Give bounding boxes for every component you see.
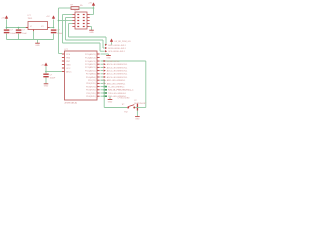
- svg-text:PB7: PB7: [66, 61, 71, 63]
- svg-text:10k: 10k: [80, 5, 83, 7]
- svg-text:LW_BR_PWM_GN: LW_BR_PWM_GN: [115, 41, 132, 43]
- net flag ADC4-LEV-SENSOR-1: [101, 63, 129, 66]
- wire regulator output: [50, 27, 54, 29]
- svg-text:GND: GND: [108, 101, 113, 103]
- svg-text:GND: GND: [66, 64, 71, 66]
- net flag ADC1-LEV-SENSOR-1: [101, 73, 129, 76]
- supply symbol +5V (avcc): [41, 63, 47, 66]
- svg-text:AVCC: AVCC: [66, 70, 72, 73]
- svg-text:GND: GND: [135, 119, 140, 121]
- wire regulator gnd pin down: [33, 31, 35, 39]
- capacitor C2 100uF: [16, 28, 28, 40]
- svg-text:100nF: 100nF: [50, 77, 56, 79]
- net flag AIN1-LED-GREEN-1: [101, 79, 127, 82]
- svg-text:T1-LED-GREEN-1: T1-LED-GREEN-1: [108, 86, 125, 88]
- svg-text:PC2(ADC2): PC2(ADC2): [85, 63, 96, 66]
- svg-text:MISO-LEVEL-SW-1: MISO-LEVEL-SW-1: [108, 45, 127, 47]
- node reset header junction: [58, 20, 60, 22]
- node junction C1: [6, 27, 8, 29]
- wire avcc vertical: [45, 66, 47, 71]
- net flag MOSI: [105, 47, 127, 50]
- svg-text:10uF: 10uF: [22, 33, 27, 35]
- wire reset pullup right: [79, 7, 94, 9]
- supply symbol +5V (header): [88, 2, 95, 6]
- svg-text:VI: VI: [30, 26, 32, 28]
- wire gnd flag stub: [101, 53, 109, 55]
- svg-text:C?: C?: [50, 74, 53, 76]
- svg-text:PD4(XCK): PD4(XCK): [86, 83, 96, 85]
- net flag RXD_BL-PWM-GN-RXD-L-1: [101, 89, 135, 92]
- net flag SCK: [105, 50, 126, 53]
- svg-text:PD1(TXD): PD1(TXD): [86, 93, 96, 95]
- svg-text:+5V: +5V: [46, 16, 50, 18]
- svg-text:PD6(AIN0): PD6(AIN0): [86, 76, 96, 79]
- svg-text:+5V: +5V: [1, 18, 5, 20]
- node junction C2: [18, 27, 20, 29]
- wire gnd rail: [7, 39, 54, 41]
- capacitor C1 100uF: [4, 28, 17, 40]
- wire gnd stub: [37, 40, 39, 44]
- svg-text:IC?: IC?: [28, 15, 32, 17]
- svg-text:GND: GND: [106, 57, 111, 59]
- svg-text:ADC1-LEV-SENSOR-1: ADC1-LEV-SENSOR-1: [107, 73, 128, 76]
- ground IC right: [109, 97, 111, 100]
- net flag T1-LED-GREEN-1: [101, 86, 126, 89]
- supply symbol +5V (input): [1, 16, 8, 20]
- svg-text:C?: C?: [10, 30, 13, 32]
- svg-text:SCK-LEVEL-SW-1: SCK-LEVEL-SW-1: [108, 51, 126, 53]
- connector JP1 ISP header: [72, 10, 89, 29]
- svg-text:7805: 7805: [28, 18, 33, 20]
- net flag ADC3-LEV-SENSOR-1: [101, 66, 129, 69]
- voltage regulator IC3 7805: [26, 15, 50, 31]
- wire gnd row stub: [100, 96, 102, 98]
- IC1 left pins: [62, 54, 72, 74]
- wire input rail to regulator: [7, 27, 28, 29]
- wire reset vertical bus: [58, 8, 60, 54]
- svg-text:PC3(ADC3): PC3(ADC3): [85, 60, 96, 63]
- ground flags: [106, 56, 111, 60]
- wire button to gnd: [136, 111, 138, 117]
- svg-text:AIN0-LED-GREEN-1: AIN0-LED-GREEN-1: [107, 82, 126, 85]
- svg-text:PD7(AIN1): PD7(AIN1): [86, 73, 96, 76]
- wire button right: [135, 107, 146, 109]
- svg-text:TS2: TS2: [124, 111, 129, 113]
- ground button: [135, 117, 140, 121]
- ground avcc: [44, 84, 49, 88]
- net flag RESET-LEV-1: [101, 60, 121, 63]
- svg-text:PB6: PB6: [66, 57, 71, 59]
- node regulator output junction: [53, 27, 55, 29]
- svg-text:PC6: PC6: [66, 54, 71, 56]
- svg-text:PD2(INT0): PD2(INT0): [86, 90, 96, 92]
- wire RESET long net: [101, 60, 146, 62]
- svg-text:PD0(RXD): PD0(RXD): [86, 96, 96, 98]
- net flag ADC2-LEV-SENSOR-1: [101, 69, 129, 72]
- svg-text:BUTTON-RST: BUTTON-RST: [134, 103, 147, 105]
- svg-text:ADC4-LEV-SENSOR-1: ADC4-LEV-SENSOR-1: [107, 63, 128, 66]
- node avcc junction: [45, 71, 47, 73]
- svg-text:VCC: VCC: [66, 68, 71, 70]
- svg-text:RESET-LEV-1: RESET-LEV-1: [107, 61, 121, 63]
- svg-text:GND: GND: [89, 32, 94, 34]
- svg-text:ADC2-LEV-SENSOR-1: ADC2-LEV-SENSOR-1: [107, 69, 128, 72]
- ground header: [89, 30, 94, 34]
- svg-text:100uF: 100uF: [10, 33, 16, 35]
- svg-text:C?: C?: [22, 30, 25, 32]
- IC1 right pins: [85, 53, 100, 98]
- wire bus MISO: [63, 14, 73, 16]
- svg-text:RXD_BL-PWM-GN-RXD-L-1: RXD_BL-PWM-GN-RXD-L-1: [108, 90, 134, 92]
- wire reset to IC pin: [59, 53, 63, 55]
- net flag MISO: [105, 44, 127, 47]
- net flag TXD-LED-GREEN-1: [101, 92, 128, 95]
- svg-text:AIN1-LED-GREEN-1: AIN1-LED-GREEN-1: [107, 79, 126, 82]
- wire avcc to IC: [46, 71, 62, 73]
- wire reset pullup left: [59, 7, 72, 9]
- wire reset to header pin: [59, 20, 73, 22]
- svg-text:GND: GND: [44, 86, 49, 88]
- svg-text:ATMEGA8-AI: ATMEGA8-AI: [65, 101, 78, 104]
- svg-text:PC0(ADC0): PC0(ADC0): [85, 69, 96, 72]
- svg-text:ADC0-LEV-SENSOR-1: ADC0-LEV-SENSOR-1: [107, 76, 128, 79]
- supply symbol +5V (output): [46, 16, 55, 19]
- resistor R1 10k: [71, 5, 83, 10]
- svg-text:PD5(T1): PD5(T1): [88, 80, 96, 82]
- wire reset to button: [101, 79, 105, 81]
- svg-text:+5V: +5V: [88, 2, 92, 4]
- svg-text:S?: S?: [122, 104, 125, 106]
- svg-text:PC4(ADC4): PC4(ADC4): [85, 56, 96, 59]
- svg-text:VO: VO: [41, 26, 44, 28]
- supply symbol +5V (flags): [110, 39, 131, 43]
- wire vcc down to header: [93, 6, 95, 14]
- switch S1 reset button: [122, 100, 147, 113]
- wire bus SCK: [69, 23, 73, 25]
- node pullup vcc junction: [93, 7, 95, 9]
- capacitor C3 100nF: [51, 29, 64, 39]
- net flag RXD-LED-GREEN-1: [101, 95, 128, 98]
- net flag ADC0-LEV-SENSOR-1: [101, 76, 129, 79]
- net flag AIN0-LED-GREEN-1: [101, 82, 127, 85]
- op-amp IC1 ATMEGA8 body: [65, 49, 98, 105]
- svg-text:GND: GND: [35, 45, 40, 47]
- svg-text:IC?: IC?: [65, 49, 69, 51]
- svg-text:TXD-LED-GREEN-1: TXD-LED-GREEN-1: [108, 93, 127, 95]
- wire to +5V out arrow: [53, 20, 55, 28]
- svg-text:ADC3-LEV-SENSOR-1: ADC3-LEV-SENSOR-1: [107, 66, 128, 69]
- svg-text:MOSI-LEVEL-SW-1: MOSI-LEVEL-SW-1: [108, 48, 127, 50]
- svg-text:PC5(ADC5): PC5(ADC5): [85, 53, 96, 56]
- svg-text:C? BLOCKED: C? BLOCKED: [118, 98, 131, 100]
- svg-text:PC1(ADC1): PC1(ADC1): [85, 66, 96, 69]
- capacitor C4 100nF: [43, 72, 56, 84]
- wire bus MOSI: [66, 17, 73, 19]
- wire input vertical: [6, 19, 8, 27]
- svg-text:PD3(INT1): PD3(INT1): [86, 86, 96, 88]
- ground regulator: [35, 43, 40, 47]
- wire header gnd stub: [90, 26, 92, 28]
